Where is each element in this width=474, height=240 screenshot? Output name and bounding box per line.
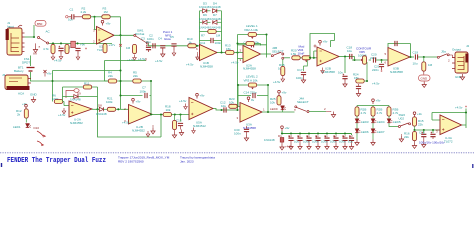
wire U4B out bbox=[152, 114, 163, 116]
op-amp U5B bbox=[436, 115, 462, 143]
svg-text:Battery: Battery bbox=[14, 69, 24, 73]
power +9v LED feed bbox=[22, 102, 27, 110]
wire lower3 out bbox=[213, 109, 238, 111]
ground symbol left bbox=[33, 43, 40, 52]
svg-text:4.7k: 4.7k bbox=[43, 47, 49, 51]
wire input to junction bbox=[25, 36, 35, 38]
wire bias rail bbox=[415, 129, 442, 131]
power +9v cross bbox=[44, 70, 52, 77]
op-amp U3B bbox=[385, 48, 411, 74]
svg-text:C2: C2 bbox=[349, 134, 353, 138]
resistor R9 bbox=[126, 44, 137, 62]
title revision text bbox=[118, 155, 215, 163]
capacitor C17 below pot bbox=[296, 60, 307, 83]
svg-text:100n: 100n bbox=[296, 76, 303, 80]
svg-text:2k: 2k bbox=[17, 112, 21, 116]
switch SW2 bbox=[389, 113, 411, 128]
svg-text:+9v: +9v bbox=[136, 100, 141, 104]
border tick bbox=[1, 163, 3, 167]
resistor R15 bbox=[273, 59, 285, 84]
resistor R6 input bbox=[52, 94, 69, 106]
resistor R14 feedback bbox=[236, 42, 260, 46]
capacitor C18 to ground bbox=[338, 57, 348, 88]
ground below U2B bbox=[321, 68, 325, 74]
svg-text:+4.5v: +4.5v bbox=[155, 59, 163, 63]
svg-text:D10: D10 bbox=[34, 126, 40, 130]
svg-text:10u: 10u bbox=[338, 71, 343, 75]
svg-text:22k: 22k bbox=[418, 122, 423, 126]
border tick right bbox=[472, 164, 474, 168]
svg-text:C17: C17 bbox=[297, 68, 303, 72]
svg-text:VR3 A 10k: VR3 A 10k bbox=[244, 79, 259, 83]
svg-text:REV 2 1907S2560: REV 2 1907S2560 bbox=[118, 159, 144, 163]
svg-text:+4.5v: +4.5v bbox=[231, 61, 239, 65]
pot VR4 bbox=[302, 51, 317, 62]
power +9v U1A bbox=[101, 20, 111, 25]
GND bubble bbox=[419, 75, 431, 88]
resistor R7 bbox=[200, 30, 222, 38]
svg-text:1M: 1M bbox=[216, 34, 221, 38]
wire bypass drop bbox=[120, 35, 122, 95]
svg-text:10k: 10k bbox=[166, 108, 171, 112]
power +4.5v lower3 bbox=[179, 99, 187, 109]
svg-text:SELECT: SELECT bbox=[272, 49, 284, 53]
wire R2 to junction bbox=[91, 16, 103, 18]
svg-text:22k: 22k bbox=[108, 74, 113, 78]
svg-text:C19: C19 bbox=[413, 51, 419, 55]
capacitor bank C33 bbox=[303, 134, 312, 150]
svg-text:22k: 22k bbox=[404, 135, 409, 139]
resistor R20 bbox=[291, 49, 304, 60]
svg-text:1N4148: 1N4148 bbox=[264, 138, 275, 142]
svg-text:100n: 100n bbox=[339, 140, 346, 144]
wire main vertical bus bbox=[237, 35, 239, 111]
wire SW1 to chain bbox=[149, 44, 200, 46]
blue note Mod VR4 bbox=[298, 45, 305, 56]
capacitor C19 bbox=[413, 51, 438, 66]
svg-text:1N4148: 1N4148 bbox=[210, 17, 221, 21]
resistor R18 bbox=[163, 105, 189, 117]
LED9 bbox=[270, 106, 286, 112]
svg-text:D8: D8 bbox=[98, 104, 102, 108]
svg-text:+4.5v: +4.5v bbox=[122, 121, 130, 125]
op-amp U1B bbox=[196, 45, 217, 69]
input jack J1 bbox=[6, 21, 25, 55]
capacitor C23 electrolytic bbox=[419, 130, 426, 148]
svg-text:DC/bat: DC/bat bbox=[135, 32, 145, 36]
resistor R31 bbox=[404, 130, 417, 149]
svg-text:10u: 10u bbox=[294, 140, 299, 144]
svg-text:NJM4558: NJM4558 bbox=[200, 64, 213, 68]
svg-text:1N4148: 1N4148 bbox=[199, 17, 210, 21]
capacitor C12 bbox=[220, 101, 226, 113]
wire bank rail bbox=[282, 131, 352, 135]
power +4.5v bias lower2 bbox=[138, 57, 146, 61]
svg-text:100n: 100n bbox=[330, 140, 337, 144]
wire U2B out bbox=[339, 56, 355, 58]
cap on feedback bbox=[395, 41, 397, 46]
battery BT1 bbox=[14, 53, 53, 82]
svg-text:10u: 10u bbox=[413, 62, 418, 66]
LED1 bbox=[13, 124, 39, 131]
capacitor bank C31 bbox=[285, 134, 294, 150]
capacitor C5 bbox=[170, 35, 177, 56]
open node circle bbox=[66, 16, 68, 18]
resistor R26 bbox=[422, 57, 433, 75]
capacitor C1 bbox=[68, 8, 82, 22]
no-connect cross bbox=[119, 44, 122, 47]
svg-text:LED5: LED5 bbox=[393, 120, 401, 124]
svg-text:LED7: LED7 bbox=[377, 130, 385, 134]
resistor R10 bbox=[187, 37, 196, 48]
label bubble B50 bbox=[35, 21, 46, 27]
resistor R13 bbox=[225, 44, 243, 55]
resistor R3 feedback bbox=[102, 7, 110, 19]
wire big loop down bbox=[98, 109, 162, 137]
LED3 bbox=[355, 116, 369, 124]
svg-text:NJM4552: NJM4552 bbox=[132, 128, 145, 132]
svg-text:+4.5v: +4.5v bbox=[58, 113, 66, 117]
svg-text:LED6: LED6 bbox=[361, 130, 369, 134]
capacitor C22 bbox=[356, 84, 361, 97]
wire diode box rails bbox=[200, 11, 222, 53]
svg-text:C1: C1 bbox=[315, 134, 319, 138]
svg-text:10nF: 10nF bbox=[298, 52, 305, 56]
capacitor C10 bbox=[238, 35, 267, 58]
svg-text:10k: 10k bbox=[229, 100, 234, 104]
svg-text:C4: C4 bbox=[158, 37, 162, 41]
svg-text:+4.5v: +4.5v bbox=[273, 80, 281, 84]
LED7 bbox=[371, 123, 385, 134]
junction into U1B bbox=[196, 45, 198, 47]
svg-text:C2: C2 bbox=[333, 134, 337, 138]
power +9v lower3 bbox=[196, 93, 205, 98]
svg-text:+4.5v: +4.5v bbox=[455, 106, 463, 110]
wire footswitch return bbox=[53, 71, 121, 102]
svg-text:+4.5v: +4.5v bbox=[372, 82, 380, 86]
power +9v LED rail bbox=[372, 99, 381, 105]
feedback diode D9 bbox=[63, 87, 98, 109]
svg-text:100n: 100n bbox=[321, 140, 328, 144]
svg-text:LED1: LED1 bbox=[13, 125, 21, 129]
switch J5a bbox=[437, 50, 455, 63]
capacitor bank C36 bbox=[330, 134, 339, 150]
diode D4 bbox=[210, 2, 222, 13]
wire inv input drop bbox=[95, 17, 97, 30]
svg-text:C5: C5 bbox=[170, 35, 174, 39]
svg-text:100k: 100k bbox=[106, 100, 113, 104]
svg-text:C2: C2 bbox=[342, 134, 346, 138]
svg-text:Jan. 2023: Jan. 2023 bbox=[180, 159, 194, 163]
junction bbox=[93, 16, 95, 18]
svg-text:J2: J2 bbox=[466, 44, 470, 48]
junction bbox=[33, 36, 35, 38]
svg-text:+17v: +17v bbox=[109, 43, 116, 47]
svg-text:10n: 10n bbox=[68, 18, 73, 22]
svg-text:+9v: +9v bbox=[200, 94, 205, 98]
diode D11 column bbox=[278, 134, 284, 150]
title border dotted bbox=[1, 152, 474, 154]
wire feedback rails lower2 bbox=[105, 61, 152, 115]
power +4.5v out bbox=[455, 106, 467, 110]
capacitor bank C35 bbox=[321, 134, 330, 150]
ground after switch bbox=[326, 112, 336, 118]
svg-text:10k: 10k bbox=[270, 100, 275, 104]
resistor R29 bbox=[387, 107, 399, 116]
capacitor C30 left bbox=[234, 126, 249, 141]
wire U2A out bbox=[261, 53, 272, 55]
capacitor C21 bbox=[372, 60, 384, 72]
LED6 bbox=[355, 123, 369, 134]
feedback resistor R11 bbox=[63, 82, 98, 102]
capacitor C26 electrolytic bbox=[54, 46, 69, 63]
svg-text:10u: 10u bbox=[347, 49, 352, 53]
ground under SW2 bbox=[399, 134, 403, 142]
svg-text:100n: 100n bbox=[215, 41, 222, 45]
wire U4A out bbox=[92, 108, 99, 110]
svg-text:220n: 220n bbox=[372, 68, 379, 72]
pot VR2 LEVEL 1 bbox=[238, 24, 267, 39]
pot VR5 CONTOUR bbox=[352, 47, 372, 65]
svg-text:NJM4558: NJM4558 bbox=[243, 67, 256, 71]
svg-text:100n: 100n bbox=[234, 131, 241, 135]
svg-text:NJM4558: NJM4558 bbox=[390, 70, 403, 74]
svg-text:DPDT: DPDT bbox=[22, 61, 30, 65]
svg-text:LED3: LED3 bbox=[361, 120, 369, 124]
wire U1A output bbox=[114, 34, 134, 36]
LED5 bbox=[387, 116, 401, 124]
transistor Q1 area bbox=[103, 43, 116, 53]
op-amp U1A bbox=[93, 27, 114, 52]
switch J4A SELECT bbox=[294, 97, 326, 113]
junction at main vertical bbox=[236, 51, 238, 53]
resistor R24 bbox=[353, 62, 380, 86]
svg-text:+9v: +9v bbox=[106, 22, 111, 26]
switch FS1a bbox=[38, 30, 51, 45]
DC jack J3 bbox=[2, 73, 31, 96]
capacitor bank C34 bbox=[312, 134, 321, 150]
power +9v U3A bbox=[247, 97, 254, 102]
svg-text:1N4148: 1N4148 bbox=[199, 25, 210, 29]
svg-text:+4.5v: +4.5v bbox=[127, 58, 135, 62]
diode D3 bbox=[199, 2, 211, 13]
svg-text:LED9: LED9 bbox=[270, 107, 278, 111]
capacitor C7 bbox=[140, 86, 148, 99]
svg-text:NJM4552: NJM4552 bbox=[70, 121, 83, 125]
svg-text:+9v: +9v bbox=[47, 72, 52, 76]
wire battery snap red bbox=[66, 89, 79, 98]
svg-text:+9v: +9v bbox=[323, 40, 328, 44]
resistor R30 bbox=[413, 117, 424, 130]
junction output U1A bbox=[119, 34, 121, 36]
capacitor C4 bbox=[155, 37, 165, 64]
svg-text:1N4148: 1N4148 bbox=[199, 5, 210, 9]
resistor R23 bbox=[229, 97, 237, 108]
op-amp U2B bbox=[317, 47, 339, 74]
svg-text:100n: 100n bbox=[140, 89, 147, 93]
pot VR3 LEVEL 2 bbox=[237, 75, 269, 113]
op-amp U4B lower2 bbox=[122, 105, 152, 137]
svg-text:+4.5v: +4.5v bbox=[285, 145, 293, 149]
resistor R5v bbox=[65, 44, 71, 53]
svg-text:4.7k: 4.7k bbox=[377, 111, 383, 115]
svg-text:1M: 1M bbox=[126, 46, 131, 50]
capacitor C25 bbox=[75, 43, 87, 60]
op-amp U3A bbox=[237, 103, 266, 130]
switch SW1 bbox=[134, 29, 149, 45]
svg-text:GND: GND bbox=[421, 77, 429, 81]
wire U1B out bbox=[217, 52, 226, 54]
op-amp U5A lower3 bbox=[189, 98, 213, 134]
diode D6 bbox=[199, 13, 211, 29]
resistor R4 bbox=[43, 44, 55, 59]
power +9v U5 bbox=[132, 98, 141, 103]
capacitor C18 series bbox=[347, 46, 353, 60]
svg-text:C1: C1 bbox=[324, 134, 328, 138]
capacitor bank C32 bbox=[294, 134, 303, 150]
wire +9v rail bbox=[52, 42, 54, 44]
svg-text:NJM4512: NJM4512 bbox=[193, 124, 206, 128]
svg-text:C1: C1 bbox=[306, 134, 310, 138]
svg-text:GND: GND bbox=[30, 93, 38, 97]
capacitor C2 bbox=[147, 34, 155, 49]
output jack J2 bbox=[452, 44, 470, 80]
svg-text:1N4148: 1N4148 bbox=[210, 25, 221, 29]
svg-text:+4.5v: +4.5v bbox=[54, 59, 62, 63]
wire U3B out bbox=[410, 56, 414, 58]
op-amp U3B feedback wire bbox=[388, 44, 411, 58]
RC to ground bbox=[172, 115, 183, 139]
power +4.5v U1B bbox=[186, 52, 199, 67]
footswitch pole arrows bbox=[37, 131, 45, 146]
svg-text:ACA: ACA bbox=[18, 92, 24, 96]
svg-text:+4.5v: +4.5v bbox=[138, 57, 146, 61]
op-amp U4A lower1 bbox=[58, 101, 92, 125]
power +9v bias bbox=[413, 112, 422, 117]
resistor R25 bbox=[270, 96, 281, 106]
svg-text:1M: 1M bbox=[104, 10, 109, 14]
svg-text:+9v: +9v bbox=[417, 112, 422, 116]
capacitor C11 bbox=[200, 38, 222, 45]
svg-text:FENDER The Trapper Dual Fuzz: FENDER The Trapper Dual Fuzz bbox=[7, 157, 106, 165]
resistor R2 bbox=[81, 7, 91, 19]
diode D8 bbox=[96, 104, 107, 117]
capacitor C24 electrolytic bbox=[430, 130, 435, 139]
svg-text:100n: 100n bbox=[303, 140, 310, 144]
svg-text:+9v: +9v bbox=[285, 126, 290, 130]
ground under J3 bbox=[30, 93, 38, 103]
svg-text:4.7k: 4.7k bbox=[361, 111, 367, 115]
wire feedback to output vertical bbox=[110, 17, 120, 36]
svg-text:22k: 22k bbox=[133, 74, 138, 78]
power +9v LED9 bbox=[278, 90, 287, 95]
svg-text:1N4148: 1N4148 bbox=[210, 5, 221, 9]
grounds LED array bbox=[355, 133, 375, 146]
op-amp U2A bbox=[231, 46, 261, 71]
svg-text:10u: 10u bbox=[146, 40, 151, 44]
capacitor C20 bbox=[370, 53, 388, 63]
svg-text:SELECT: SELECT bbox=[297, 100, 309, 104]
svg-text:LED4: LED4 bbox=[377, 120, 385, 124]
resistor R16 feedback bbox=[108, 71, 117, 84]
capacitor C3 electrolytic bbox=[141, 37, 151, 53]
svg-text:10u: 10u bbox=[348, 140, 353, 144]
svg-text:Output: Output bbox=[452, 48, 461, 52]
blue note 100u bbox=[419, 141, 445, 145]
resistor R21 bbox=[106, 97, 129, 112]
wire U3A out bbox=[262, 111, 295, 113]
wire vertical node A bbox=[33, 25, 35, 37]
svg-text:C3: C3 bbox=[288, 134, 292, 138]
svg-text:C1: C1 bbox=[70, 8, 74, 12]
svg-text:VR2 A 10k: VR2 A 10k bbox=[244, 28, 259, 32]
svg-text:C1: C1 bbox=[297, 134, 301, 138]
svg-text:100u/16v 100u/16v: 100u/16v 100u/16v bbox=[419, 141, 445, 145]
blue note Point 1 bbox=[163, 30, 173, 41]
resistor R12 bbox=[16, 109, 28, 123]
svg-text:+9v: +9v bbox=[376, 99, 381, 103]
capacitor bank C38 bbox=[348, 134, 354, 150]
svg-text:1N4148: 1N4148 bbox=[70, 98, 81, 102]
svg-text:2.2k: 2.2k bbox=[81, 10, 87, 14]
svg-text:+4.5v: +4.5v bbox=[179, 99, 187, 103]
resistor R27 bbox=[355, 107, 367, 116]
wire feedback box U2B bbox=[310, 34, 335, 58]
svg-text:R7: R7 bbox=[201, 34, 205, 38]
svg-text:1M: 1M bbox=[428, 63, 433, 67]
power +9v U2B bbox=[314, 40, 328, 48]
svg-text:C11: C11 bbox=[200, 41, 206, 45]
switch J4B SELECT bbox=[271, 46, 284, 59]
LED4 bbox=[371, 116, 385, 124]
capacitor bank C37 bbox=[339, 134, 348, 150]
power +9v bank bbox=[281, 126, 290, 131]
svg-text:B50: B50 bbox=[37, 22, 43, 26]
svg-text:+9v: +9v bbox=[80, 43, 85, 47]
wire LED rail bbox=[357, 106, 389, 108]
svg-text:+9v: +9v bbox=[282, 91, 287, 95]
diode D7 bbox=[210, 13, 222, 29]
svg-text:9v: 9v bbox=[251, 98, 255, 102]
grounds mid row bbox=[151, 125, 155, 134]
resistor R28 bbox=[371, 107, 383, 116]
wire to R20 bbox=[284, 57, 290, 59]
wire to C1 bbox=[49, 42, 112, 44]
svg-text:+4.5v: +4.5v bbox=[186, 63, 194, 67]
svg-text:1N4148: 1N4148 bbox=[96, 112, 107, 116]
resistor R17 feedback bbox=[133, 71, 141, 84]
op-amp U5B bias feedback bbox=[432, 109, 466, 129]
svg-text:J5a: J5a bbox=[441, 50, 446, 54]
svg-text:TL072: TL072 bbox=[444, 139, 453, 143]
svg-text:U02: U02 bbox=[399, 116, 405, 120]
diode D1 on rail bbox=[71, 41, 76, 47]
svg-text:100n: 100n bbox=[312, 140, 319, 144]
